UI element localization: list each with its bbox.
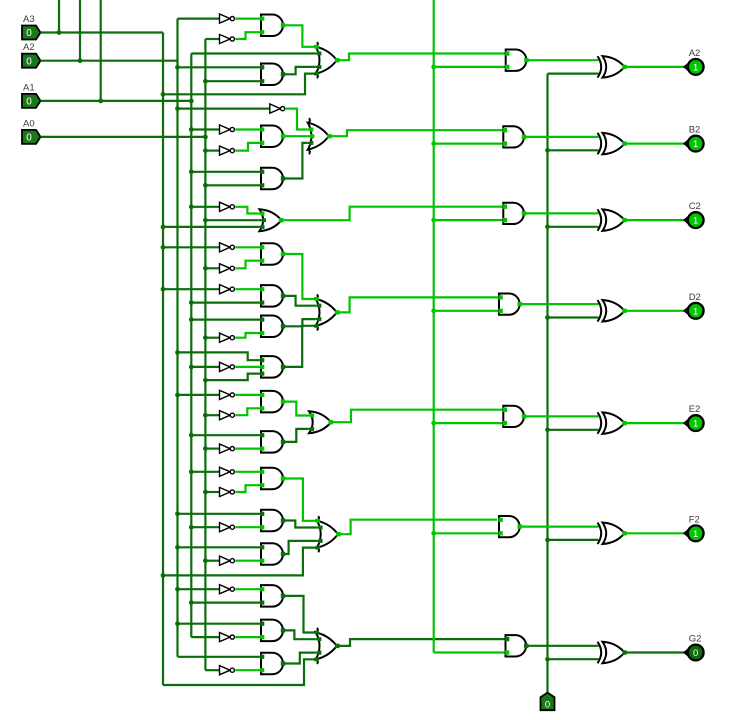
xor gate XE2 (598, 412, 602, 434)
input pin A2 (22, 54, 41, 68)
wire tap A3 to NOT9 (163, 288, 220, 290)
wire A2 pin to trunk (41, 60, 178, 62)
inverter N1 (220, 14, 231, 23)
wire tap A0 to AND8 in3 (205, 374, 261, 381)
wire NOT7 out (235, 246, 261, 248)
wire tap A1 to NOT17 (191, 526, 219, 528)
svg-text:0: 0 (693, 648, 698, 659)
node tap A3 to OR6 (161, 573, 166, 578)
wire tap A0 to NOT16 (205, 491, 219, 493)
node tap A0 to NOT16 (203, 490, 208, 495)
or gate OR1 segA (316, 47, 337, 74)
wire NOT13 out elbow (235, 408, 261, 415)
svg-text:C2: C2 (689, 201, 701, 212)
wire AND1 out elbow (283, 25, 315, 47)
wire invert to XOR row D (548, 316, 599, 318)
wire tap A2 to AND12 in1 (178, 513, 262, 515)
wire tap A0 to NOT5 (205, 150, 219, 152)
inverter N18 (220, 556, 231, 565)
output pin A2 (684, 63, 688, 70)
wire NOT4 out (235, 128, 261, 130)
and gate UC2 (503, 203, 524, 224)
node A1 branch up (98, 99, 103, 104)
wire trunk A0 top to NOT2 (205, 38, 219, 40)
or gate OR4 segD (316, 299, 337, 326)
node tap A3 to NOT9 (161, 287, 166, 292)
svg-text:B2: B2 (689, 125, 701, 136)
and gate AND9 (261, 391, 283, 413)
wire enable to AND row E (434, 422, 504, 424)
wire enable to AND row D (434, 310, 499, 312)
svg-text:A0: A0 (23, 118, 35, 129)
wire A0 pin to trunk (41, 136, 206, 138)
wire trunk A3 vertical (162, 33, 164, 686)
or gate OR7 segG (316, 632, 337, 659)
wire enable to AND row C (434, 219, 504, 221)
wire tap A1 to NOT4 (191, 128, 219, 130)
node tap A1 to AND4 in1 (189, 169, 194, 174)
wire AND12 out elbow (283, 521, 316, 528)
node tap A3 to OR1 (161, 92, 166, 97)
wire invert to XOR row E (548, 429, 599, 431)
node tap A0 to NOT18 (203, 558, 208, 563)
and gate AND12 (261, 510, 283, 532)
svg-text:F2: F2 (689, 514, 700, 525)
and gate UA2 (506, 50, 527, 71)
wire trunk A1 top to OR1 (191, 52, 315, 54)
node invert row D (545, 315, 550, 320)
wire AND2 out elbow (283, 67, 315, 74)
wire enable to AND row A (434, 66, 506, 68)
wire enable to AND row B (434, 143, 504, 145)
output pin C2 (684, 217, 688, 224)
inverter N4 (220, 125, 231, 134)
or gate OR3 segC (259, 209, 281, 231)
wire AND5 out elbow (283, 254, 315, 299)
xor gate XF2 (598, 523, 602, 545)
output pin B2 (684, 140, 688, 147)
wire trunk A1 bottom to NOT20 (191, 636, 219, 638)
inverter N11 (220, 362, 231, 371)
wire invert to XOR row B (548, 149, 599, 151)
wire A1 pin to trunk (41, 100, 192, 102)
node tap A1 to NOT17 (189, 525, 194, 530)
wire tap A0 to NOT18 (205, 560, 219, 562)
wire invert to XOR row G (548, 658, 599, 660)
wire OR6 out to row F (338, 520, 497, 535)
wire OR4 out to row D (337, 297, 499, 312)
and gate AND16 (261, 653, 283, 675)
wire trunk A2 bottom to AND16 (178, 656, 262, 658)
inverter N12 (220, 390, 231, 399)
node invert row F (545, 538, 550, 543)
wire AND14 out elbow (283, 596, 315, 633)
wire trunk A0 vertical (204, 39, 206, 670)
wire OR1 out to row A (337, 54, 506, 61)
wire OR7 out to row G (337, 639, 506, 646)
wire AND3 out (283, 135, 307, 137)
inverter N14 (220, 444, 231, 453)
wire UC2 to XOR (524, 212, 599, 214)
node tap A1 to NOT11 (189, 365, 194, 370)
svg-text:0: 0 (26, 56, 32, 67)
node tap A2 to AND8 (175, 350, 180, 355)
wire NOT6 out elbow (235, 207, 258, 214)
inverter N10 (220, 333, 231, 342)
svg-text:G2: G2 (689, 634, 702, 645)
wire OR3 out to row C (281, 207, 503, 221)
node invert row E (545, 427, 550, 432)
and gate UE2 (503, 406, 524, 427)
inverter N16 (220, 487, 231, 496)
wire tap A1 to AND14 in2 (191, 601, 261, 603)
wire tap A3 to OR6 in5 (163, 548, 316, 576)
node tap A2 to NOT19 (175, 587, 180, 592)
inverter N21 (220, 666, 231, 675)
and gate AND5 (261, 243, 283, 265)
wire NOT14 out (235, 448, 261, 450)
node tap A0 to NOT13 (203, 413, 208, 418)
wire NOT16 out elbow (235, 485, 261, 492)
wire tap A1 to AND4 in1 (191, 171, 261, 173)
wire NOT18 out (235, 560, 261, 562)
node enable row B (431, 141, 436, 146)
node tap A1 to AND7 in1 (189, 317, 194, 322)
wire AND7 out elbow (283, 319, 315, 326)
and gate UD2 (499, 293, 520, 314)
svg-text:1: 1 (693, 529, 698, 540)
node invert row C (545, 224, 550, 229)
wire UG2 to XOR (526, 645, 599, 647)
wire tap A2 to AND8 in1 (178, 352, 262, 360)
inverter N6 (220, 202, 231, 211)
inverter N15 (220, 467, 231, 476)
svg-text:E2: E2 (689, 404, 701, 415)
node enable row A (431, 65, 436, 70)
wire NOT11 out (235, 366, 261, 368)
inverter N20 (220, 633, 231, 642)
wire tap A2 to NOT12 (178, 394, 220, 396)
wire enable to AND row F (434, 532, 499, 534)
wire tap A0 to OR3 in3 (205, 219, 258, 221)
inverter N17 (220, 523, 231, 532)
wire tap A0 to NOT13 (205, 414, 219, 416)
wire AND8 out elbow (283, 326, 315, 367)
svg-text:1: 1 (693, 63, 698, 74)
wire AND15 out elbow (283, 630, 315, 639)
wire trunk A2 top to NOT1 (178, 18, 220, 20)
and gate AND6 (261, 285, 283, 307)
node tap A1 to NOT15 (189, 469, 194, 474)
node tap A3 to NOT7 (161, 245, 166, 250)
wire tap A0 to NOT14 (205, 448, 219, 450)
svg-text:A2: A2 (23, 42, 35, 53)
wire invert to XOR row C (548, 226, 599, 228)
node tap A2 to AND12 in1 (175, 511, 180, 516)
node enable row C (431, 218, 436, 223)
svg-text:A2: A2 (689, 48, 701, 59)
wire AND16 out elbow (283, 653, 315, 664)
input pin A0 (22, 130, 41, 144)
wire XA2 to pin (625, 66, 685, 68)
wire tap A0 to AND4 in2 (205, 184, 261, 186)
wire tap A1 to NOT11 (191, 366, 219, 368)
wire NOT2 out elbow (235, 32, 261, 39)
node mid AND input ports (260, 17, 264, 21)
wire UA2 to XOR (526, 59, 598, 61)
wire AND9 out elbow (283, 402, 308, 416)
node tap A3 to OR3 in4 (161, 225, 166, 230)
inverter N19 (220, 585, 231, 594)
wire XB2 to pin (625, 143, 685, 145)
node tap A1 to NOT4 (189, 127, 194, 132)
wire tap A1 to NOT15 (191, 471, 219, 473)
and gate AND10 (261, 431, 283, 453)
wire tap A0 to NOT10 (205, 337, 219, 339)
wire XC2 to pin (625, 219, 685, 221)
wire trunk A3 bottom loop (163, 659, 315, 685)
or gate OR2 segB (308, 123, 329, 150)
wire tap A0 to NOT8 (205, 267, 219, 269)
node tap A1 to NOT6 (189, 204, 194, 209)
wire NOT20 out (235, 636, 261, 638)
wire tap A3 to OR3 in4 (163, 226, 259, 228)
wire AND13 out elbow (283, 541, 316, 554)
node enable row D (431, 308, 436, 313)
wire UE2 to XOR (524, 415, 599, 417)
and gate AND11 (261, 468, 283, 490)
wire A3 pin to trunk (41, 31, 164, 33)
wire tap A3 to OR1 in5 (163, 74, 315, 95)
inverter N2 (220, 34, 231, 43)
svg-text:0: 0 (545, 700, 550, 711)
svg-text:1: 1 (693, 216, 698, 227)
svg-text:1: 1 (693, 139, 698, 150)
wire NOT1 out (235, 18, 261, 20)
node invert row B (545, 148, 550, 153)
node tap A2 to NOT12 (175, 393, 180, 398)
input pin A1 (22, 94, 41, 108)
wire XG2 to pin (625, 651, 685, 653)
wire NOT5 out elbow (235, 143, 261, 151)
wire NOT3 out elbow (286, 109, 308, 130)
wire tap A1 to NOT6 (191, 206, 219, 208)
and gate AND14 (261, 585, 283, 607)
wire XD2 to pin (625, 310, 685, 312)
wire UD2 to XOR (519, 303, 598, 305)
xor gate XG2 (598, 642, 602, 664)
wire XE2 to pin (625, 422, 685, 424)
and gate AND3 (261, 125, 283, 147)
node tap A2 to AND2 in1 (175, 65, 180, 70)
output pin G2 (684, 649, 688, 656)
node tap A1 to AND14 in2 (189, 600, 194, 605)
svg-text:0: 0 (26, 97, 32, 108)
node tap A0 to AND2 in2 (203, 79, 208, 84)
inverter N7 (220, 243, 231, 252)
and gate AND13 (261, 543, 283, 565)
wire trunk A1 vertical (190, 54, 192, 638)
output pin F2 (684, 530, 688, 537)
xor gate XC2 (598, 209, 602, 231)
or gate OR5 segE (309, 411, 331, 433)
wire tap A3 to NOT7 (163, 246, 220, 248)
node tap A0 to NOT14 (203, 446, 208, 451)
wire NOT10 out elbow (235, 333, 261, 338)
node A2 branch up (78, 58, 83, 63)
wire invert trunk vertical (546, 74, 548, 693)
wire NOT21 out (235, 669, 261, 671)
wire UF2 to XOR (519, 525, 598, 527)
wire tap A1 to AND7 in1 (191, 319, 261, 321)
svg-text:0: 0 (26, 133, 32, 144)
wire tap A2 to AND2 in1 (178, 66, 262, 68)
inverter N8 (220, 264, 231, 273)
or gate OR6 segF (317, 521, 338, 548)
inverter N13 (220, 411, 231, 420)
svg-text:1: 1 (693, 419, 698, 430)
node tap A0 to AND4 in2 (203, 183, 208, 188)
and gate AND7 (261, 316, 283, 338)
wire OR2 out to row B (329, 130, 504, 136)
node tap A0 to NOT10 (203, 335, 208, 340)
output pin D2 (684, 307, 688, 314)
inverter N5 (220, 146, 231, 155)
wire tap A2 to NOT19 (178, 588, 220, 590)
xor gate XD2 (598, 300, 602, 322)
wire NOT12 out (235, 394, 261, 396)
node tap A2 to AND13 in1 (175, 545, 180, 550)
wire OR5 out to row E (331, 410, 504, 423)
wire NOT19 out (235, 588, 261, 590)
wire tap A1 to AND10 in1 (191, 434, 261, 436)
wire UB2 to XOR (524, 136, 599, 138)
node tap A1 to AND6 in2 (189, 300, 194, 305)
wire trunk A2 vertical (176, 19, 178, 657)
and gate UB2 (503, 126, 524, 147)
wire AND11 out elbow (283, 479, 316, 521)
svg-text:1: 1 (693, 306, 698, 317)
inverter N3 (270, 104, 281, 113)
xor gate XA2 (598, 56, 602, 78)
svg-text:0: 0 (26, 28, 32, 39)
wire NOT15 out (235, 471, 261, 473)
wire tap A0 to AND2 in2 (205, 80, 261, 82)
wire AND4 out elbow (283, 143, 307, 179)
and gate AND4 (261, 168, 283, 190)
wire trunk A0 bottom to NOT21 (205, 669, 219, 671)
node invert row G (545, 657, 550, 662)
and gate AND2 (261, 64, 283, 86)
wire enable trunk vertical (433, 0, 435, 653)
wire tap A2 to AND15 in1 (178, 623, 262, 625)
node tap A0 to NOT8 (203, 266, 208, 271)
node tap A2 to AND15 in1 (175, 621, 180, 626)
wire NOT17 out (235, 526, 261, 528)
node tap A0 to AND8 (203, 378, 208, 383)
wire tap A1 to AND6 in2 (191, 302, 261, 304)
and gate AND1 (261, 15, 283, 37)
wire invert to XOR row F (548, 539, 599, 541)
node tap A2 to NOT3 (175, 106, 180, 111)
node tap A0 to NOT5 (203, 148, 208, 153)
wire tap A2 to NOT3 (178, 107, 270, 109)
wire AND10 out elbow (283, 429, 308, 442)
node enable row E (431, 421, 436, 426)
and gate UG2 (506, 635, 527, 656)
and gate UF2 (499, 516, 520, 537)
wire tap A2 to AND13 in1 (178, 546, 262, 548)
wire enable corner to G row (434, 651, 506, 653)
inverter N9 (220, 285, 231, 294)
svg-text:A3: A3 (23, 14, 35, 25)
svg-text:D2: D2 (689, 292, 701, 303)
svg-text:A1: A1 (23, 82, 35, 93)
and gate AND8 (261, 356, 283, 378)
node tap A1 to AND10 in1 (189, 433, 194, 438)
output pin E2 (684, 420, 688, 427)
wire AND6 out elbow (283, 296, 315, 306)
input pin A3 (22, 26, 41, 40)
wire XF2 to pin (625, 532, 685, 534)
and gate AND15 (261, 620, 283, 642)
node enable row F (431, 531, 436, 536)
input pin invert 0 (541, 693, 555, 711)
wire invert corner row A (548, 72, 599, 74)
node tap A0 to OR3 in3 (203, 218, 208, 223)
wire NOT9 out (235, 288, 261, 290)
xor gate XB2 (598, 133, 602, 155)
wire NOT8 out elbow (235, 261, 261, 269)
node A3 branch up (57, 30, 62, 35)
